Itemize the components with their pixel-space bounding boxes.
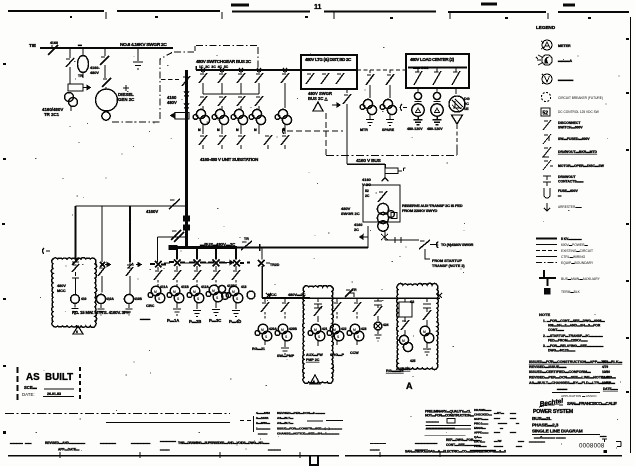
svg-text:M: M bbox=[236, 128, 239, 132]
connector paren bbox=[437, 242, 439, 249]
svg-text:480V▬2C: 480V▬2C bbox=[216, 242, 235, 247]
svg-text:CONTACTS▬▬: CONTACTS▬▬ bbox=[558, 180, 584, 184]
svg-text:4▬▬8/82: 4▬▬8/82 bbox=[256, 411, 270, 415]
left feeder3 vertical bbox=[129, 206, 131, 262]
svg-text:TR: TR bbox=[352, 288, 357, 292]
svg-text:1C 2C 3C 4C 5C: 1C 2C 3C 4C 5C bbox=[199, 65, 229, 69]
drawout arrow mid bbox=[225, 261, 233, 265]
svg-text:FROM STARTUP: FROM STARTUP bbox=[432, 259, 462, 263]
feeder2 ground bbox=[98, 304, 105, 315]
svg-text:M: M bbox=[402, 339, 405, 343]
box2 drop 1 pt circle bbox=[417, 88, 419, 92]
small motor circle x250 bbox=[247, 291, 255, 299]
svg-text:PMP 2C: PMP 2C bbox=[306, 358, 320, 362]
drop B5 x357 bbox=[353, 298, 361, 312]
svg-text:420B: 420B bbox=[289, 327, 298, 331]
wire to startup transformer bbox=[385, 239, 419, 241]
drop B7 x405 (in cloud M2, box) bbox=[404, 298, 406, 302]
svg-text:PROJ▬▬: PROJ▬▬ bbox=[474, 422, 488, 426]
svg-text:TR: TR bbox=[244, 237, 249, 241]
drop B6 x378 (double contact) bbox=[374, 298, 382, 321]
svg-text:480V: 480V bbox=[167, 100, 177, 105]
svg-text:ISSUED▬CERTIFIED▬CONFORM▬: ISSUED▬CERTIFIED▬CONFORM▬ bbox=[529, 370, 591, 374]
svg-text:TR 2C1: TR 2C1 bbox=[44, 112, 60, 117]
cloud L drop symbols bbox=[72, 258, 79, 265]
feeder breaker slash group x241 bbox=[237, 70, 245, 94]
feeder3 slash bbox=[126, 267, 133, 295]
revision cloud left bbox=[51, 258, 96, 328]
svg-text:MCC: MCC bbox=[57, 289, 66, 293]
border right zone dots bbox=[626, 39, 629, 392]
box2 drop 3 generator circle bbox=[455, 88, 457, 94]
dashed control interconnections bbox=[283, 113, 458, 156]
svg-text:M: M bbox=[193, 290, 196, 294]
second slash x222 bbox=[218, 96, 226, 110]
svg-text:RG▬21: RG▬21 bbox=[252, 347, 265, 351]
svg-text:11/81: 11/81 bbox=[602, 376, 610, 380]
svg-text:AS▬BLT▬: AS▬BLT▬ bbox=[277, 416, 294, 420]
svg-text:▬▬▬▬▬▬▬: ▬▬▬▬▬▬▬ bbox=[415, 441, 438, 445]
motor cluster A1 x158 bbox=[151, 286, 161, 296]
svg-text:▭▭ 2C1: ▭▭ 2C1 bbox=[413, 66, 428, 70]
legend bus symbol bbox=[539, 270, 556, 286]
svg-text:EQUIP▬BOUNDARY: EQUIP▬BOUNDARY bbox=[561, 261, 594, 265]
svg-text:CHANGE▬NOTICE▬SEE▬SH▬1▬▬▬▬: CHANGE▬NOTICE▬SEE▬SH▬1▬▬▬▬ bbox=[277, 432, 340, 436]
junction cross bbox=[123, 85, 129, 91]
svg-text:NOT▬FOR▬CONSTRUCTION▬: NOT▬FOR▬CONSTRUCTION▬ bbox=[425, 414, 474, 418]
box2 drop 1 transformer circle with delta bbox=[412, 104, 424, 116]
svg-text:BUS▬2L: BUS▬2L bbox=[532, 416, 552, 422]
svg-text:BUS▬MAIN▬AUXILIARY: BUS▬MAIN▬AUXILIARY bbox=[561, 277, 601, 281]
svg-text:S: S bbox=[285, 335, 288, 339]
legend sym disconnect slash bbox=[543, 120, 551, 130]
legend filled square bbox=[544, 288, 551, 295]
drawout contact x102 bbox=[100, 262, 110, 267]
svg-text:480V LTG (&) DIST BD 2C: 480V LTG (&) DIST BD 2C bbox=[305, 57, 352, 62]
svg-text:52: 52 bbox=[365, 189, 369, 193]
svg-text:▬▬: ▬▬ bbox=[494, 416, 500, 420]
svg-text:TERM▬BLK: TERM▬BLK bbox=[561, 290, 581, 294]
legend sym 52 breaker bbox=[541, 108, 550, 116]
breaker drop x216 bbox=[208, 248, 225, 267]
svg-text:S: S bbox=[357, 335, 360, 339]
svg-text:▬▬▬▬▬▬: ▬▬▬▬▬▬ bbox=[131, 441, 151, 445]
svg-text:▬▬▬▬: ▬▬▬▬ bbox=[415, 448, 429, 452]
svg-text:P▬2B: P▬2B bbox=[189, 319, 201, 324]
box2 breaker slashes bbox=[414, 68, 460, 86]
transformer enclosure box bbox=[363, 185, 400, 222]
svg-text:412A: 412A bbox=[201, 285, 210, 289]
bus B main horizontal bbox=[262, 297, 310, 299]
svg-text:412B: 412B bbox=[227, 284, 236, 288]
box1 breaker slash 1 bbox=[306, 73, 314, 84]
junction marks on 480V bus bbox=[201, 68, 287, 72]
svg-text:▬▬: ▬▬ bbox=[510, 430, 516, 434]
second slash x203 bbox=[199, 96, 207, 110]
svg-text:S: S bbox=[318, 335, 321, 339]
svg-text:S: S bbox=[265, 335, 268, 339]
svg-text:1▬▬▬▬: 1▬▬▬▬ bbox=[256, 427, 271, 431]
drop B1 motor cluster bbox=[258, 324, 268, 334]
slash tap above bus B bbox=[345, 289, 354, 297]
svg-text:600V▬POWER▬: 600V▬POWER▬ bbox=[561, 243, 588, 247]
svg-text:5 KV▬▬▬▬: 5 KV▬▬▬▬ bbox=[561, 237, 582, 241]
legend sym fused switch slash bbox=[543, 134, 551, 144]
svg-text:NO.6 4.16KV SWGR 2C: NO.6 4.16KV SWGR 2C bbox=[120, 42, 167, 48]
svg-text:▬▬▬▬: ▬▬▬▬ bbox=[558, 78, 573, 82]
potential transformer fuse box bbox=[385, 168, 406, 174]
slash on y237 feeder bbox=[171, 230, 184, 242]
svg-text:CIRCUIT BREAKER (FUTURE): CIRCUIT BREAKER (FUTURE) bbox=[558, 96, 603, 100]
svg-text:M: M bbox=[281, 328, 284, 332]
svg-text:NOTE: NOTE bbox=[539, 312, 550, 317]
motor cluster M2 bbox=[215, 109, 224, 118]
legend sym future device (dashed circle) bbox=[541, 92, 550, 101]
svg-text:DC CONTROL 125 VDC SW: DC CONTROL 125 VDC SW bbox=[558, 110, 599, 114]
border top smudges bbox=[231, 4, 575, 5]
box1 breaker slash 2 bbox=[321, 73, 329, 84]
drawout symbol H bbox=[395, 237, 401, 243]
svg-text:POWER SYSTEM: POWER SYSTEM bbox=[533, 409, 573, 415]
generator neutral circle bbox=[102, 112, 110, 120]
disconnect switch S1 bbox=[66, 58, 74, 84]
svg-text:▬▬▬: ▬▬▬ bbox=[160, 448, 170, 452]
cloud L motor circle bbox=[71, 295, 80, 304]
feeder3 motor circle x130 bbox=[124, 294, 133, 303]
stamp underlines bbox=[43, 389, 74, 397]
svg-text:SINGLE LINE DIAGRAM: SINGLE LINE DIAGRAM bbox=[532, 429, 583, 435]
motor cluster M4 bbox=[252, 109, 261, 118]
dashed link connector left bbox=[283, 128, 285, 134]
svg-text:METER: METER bbox=[558, 44, 571, 48]
bus inside box2 bbox=[408, 67, 467, 69]
border zone tick marks top bbox=[106, 12, 548, 19]
svg-text:▬: ▬ bbox=[516, 421, 519, 425]
dash-dot link y155 bbox=[326, 155, 457, 157]
svg-text:▬▬▬: ▬▬▬ bbox=[557, 387, 568, 391]
wire left lead from transformer to bus A bbox=[367, 226, 369, 248]
feeder slash x177 bbox=[173, 266, 181, 280]
MCC drop B ground bbox=[386, 115, 394, 126]
breaker drop x177 bbox=[169, 248, 185, 267]
short feeder y237 bbox=[158, 237, 187, 262]
inner breaker slash bbox=[378, 191, 387, 202]
svg-text:3▬10/81: 3▬10/81 bbox=[256, 416, 269, 420]
svg-text:480V: 480V bbox=[57, 284, 66, 288]
svg-text:FED▬FROM▬220KV▬▬: FED▬FROM▬220KV▬▬ bbox=[548, 339, 588, 343]
svg-text:SCE▬: SCE▬ bbox=[24, 385, 38, 390]
border bottom sheet tick bbox=[310, 456, 318, 465]
svg-text:480V SWITCHGEAR BUS 2C: 480V SWITCHGEAR BUS 2C bbox=[196, 59, 252, 64]
dashed line from gen down bbox=[456, 125, 458, 155]
left cloud feeder vertical bbox=[75, 206, 77, 260]
legend sym ammeter bbox=[542, 40, 552, 50]
wire: transformer tail bbox=[70, 106, 72, 111]
revision cloud M1 bbox=[303, 285, 334, 383]
svg-text:4/79: 4/79 bbox=[602, 365, 608, 369]
svg-text:▬▬▬A: ▬▬▬A bbox=[558, 59, 572, 63]
svg-text:480V LOAD CENTER (2): 480V LOAD CENTER (2) bbox=[410, 57, 455, 62]
dash-dot enclosure (emergency section) bbox=[112, 46, 258, 123]
breaker CB-T1 (slash on tie bus) bbox=[48, 45, 58, 55]
breaker CB-G1 slash bbox=[100, 48, 109, 65]
svg-text:1. ▬FOR▬CONT▬SEE▬DWG▬0008▬: 1. ▬FOR▬CONT▬SEE▬DWG▬0008▬ bbox=[543, 319, 605, 323]
svg-text:▬▬▬: ▬▬▬ bbox=[258, 432, 268, 436]
svg-text:AUX▬FW: AUX▬FW bbox=[306, 353, 323, 357]
connector bracket left of box2 bbox=[400, 104, 407, 111]
svg-text:DATE:: DATE: bbox=[22, 392, 35, 397]
svg-text:▬▬▬▬▬▬▬▬▬▬: ▬▬▬▬▬▬▬▬▬▬ bbox=[426, 426, 455, 430]
drawout arrow left bbox=[360, 235, 368, 239]
svg-text:▬▬▬: ▬▬▬ bbox=[556, 436, 566, 440]
current transformer box on feeder bbox=[171, 113, 189, 120]
legend sym voltmeter bbox=[542, 74, 552, 84]
border bottom small ticks bbox=[60, 452, 440, 458]
svg-text:2C: 2C bbox=[464, 102, 469, 106]
svg-text:FUSE▬600V: FUSE▬600V bbox=[558, 189, 579, 193]
svg-text:4160V: 4160V bbox=[146, 209, 158, 214]
svg-text:REVISED▬PER▬DCN▬2-▬▬▬: REVISED▬PER▬DCN▬2-▬▬▬ bbox=[277, 411, 326, 415]
feeder breaker slash group x259 bbox=[255, 70, 263, 94]
svg-text:▬▬▬▬▬: ▬▬▬▬▬ bbox=[100, 441, 117, 445]
svg-text:M: M bbox=[314, 328, 317, 332]
second slash x241 bbox=[237, 96, 245, 110]
svg-text:ISSUE▬FOR▬CONSTR▬SEE▬(▬)▬▬▬▬: ISSUE▬FOR▬CONSTR▬SEE▬(▬)▬▬▬▬ bbox=[277, 427, 343, 431]
revision strip upper line bbox=[106, 422, 230, 424]
small square below number bbox=[604, 450, 608, 453]
svg-text:▬▬▬: ▬▬▬ bbox=[140, 317, 151, 321]
svg-text:PHASE▬2,3: PHASE▬2,3 bbox=[532, 423, 559, 429]
transformer T-B ellipse bbox=[82, 48, 84, 56]
svg-text:SWGR 2C: SWGR 2C bbox=[341, 211, 360, 216]
svg-text:AS▬BLT▬: AS▬BLT▬ bbox=[277, 421, 294, 425]
transformer T-A (two circles) bbox=[65, 93, 74, 102]
svg-text:SW▬PMP: SW▬PMP bbox=[277, 354, 295, 358]
svg-text:REF▬DWG▬FOR▬▬: REF▬DWG▬FOR▬▬ bbox=[446, 438, 480, 442]
current transformer box with arrow bbox=[68, 84, 90, 91]
feeder2 motor circle x102 bbox=[96, 294, 105, 303]
switchgear enclosure box 2 bbox=[406, 54, 469, 88]
svg-text:DRAWN▬▬: DRAWN▬▬ bbox=[474, 408, 491, 412]
svg-text:420A: 420A bbox=[269, 327, 278, 331]
dashed 480V tie bus between boxes bbox=[357, 69, 406, 71]
svg-text:10/82: 10/82 bbox=[602, 381, 610, 385]
svg-text:CIRC: CIRC bbox=[146, 304, 155, 308]
breaker drop x262 (tie to MCC bus) bbox=[258, 248, 270, 267]
revision triangle below cloud M1 bbox=[310, 375, 320, 384]
feeder slash x158 bbox=[154, 267, 162, 280]
svg-text:DATE▬▬: DATE▬▬ bbox=[603, 387, 619, 391]
svg-text:TR: TR bbox=[78, 74, 83, 78]
feeder slash x216 bbox=[212, 266, 220, 280]
svg-text:GEN 2C: GEN 2C bbox=[118, 97, 135, 102]
motor cluster M5 bbox=[278, 109, 287, 118]
svg-text:M: M bbox=[254, 128, 257, 132]
breaker slash on bus A right bbox=[241, 241, 252, 250]
svg-text:▬▬▬: ▬▬▬ bbox=[498, 421, 507, 425]
svg-text:DG: DG bbox=[464, 97, 470, 101]
svg-text:M: M bbox=[154, 290, 157, 294]
warning triangle below box1 bbox=[313, 102, 323, 111]
motor cluster M3 bbox=[234, 109, 243, 118]
legend sym fuse bbox=[544, 188, 550, 198]
diesel generator G 2C circle bbox=[96, 89, 118, 111]
feeder breaker slash group x222 bbox=[218, 70, 226, 94]
svg-text:MCC: MCC bbox=[268, 293, 277, 297]
svg-text:▬▬: ▬▬ bbox=[25, 441, 32, 445]
svg-text:DRAWOUT▬BKR▬MTD: DRAWOUT▬BKR▬MTD bbox=[558, 150, 598, 154]
border right line bbox=[630, 17, 632, 453]
svg-text:2▬9/80▬: 2▬9/80▬ bbox=[256, 421, 271, 425]
wire: drop to load break switch bbox=[69, 48, 71, 58]
svg-text:S: S bbox=[337, 335, 340, 339]
box2 drop 1 contact bars bbox=[415, 102, 422, 105]
drop B7 motor cluster bbox=[399, 335, 408, 344]
svg-text:S: S bbox=[197, 297, 200, 301]
svg-text:▬▬: ▬▬ bbox=[510, 411, 516, 415]
svg-text:▬▬▬▬▬▬▬▬: ▬▬▬▬▬▬▬▬ bbox=[470, 448, 496, 452]
svg-text:CCW: CCW bbox=[350, 351, 359, 355]
stamp right dashed border bbox=[79, 367, 81, 400]
dot x248 bbox=[247, 262, 250, 264]
svg-text:SW▬FUSED▬600V: SW▬FUSED▬600V bbox=[558, 137, 590, 141]
svg-text:▬RT▬: ▬RT▬ bbox=[494, 411, 504, 415]
legend sym drawout contact stack bbox=[543, 176, 551, 186]
svg-text:LEGEND: LEGEND bbox=[536, 25, 556, 30]
box2 drop 2 pt circle bbox=[436, 88, 438, 92]
svg-text:RG. 15 MW. MTR'S. 4160V. 3PH: RG. 15 MW. MTR'S. 4160V. 3PH bbox=[72, 310, 129, 315]
svg-text:▬: ▬ bbox=[78, 43, 82, 47]
svg-text:CTRL▬WIRING: CTRL▬WIRING bbox=[561, 255, 586, 259]
svg-text:▬▬▬▬: ▬▬▬▬ bbox=[268, 448, 282, 452]
feeder3 ground bbox=[126, 304, 133, 315]
box2 drop 2 ground blob bbox=[433, 117, 442, 125]
breaker on main vertical feeder bbox=[182, 76, 190, 86]
svg-text:S: S bbox=[177, 297, 180, 301]
feeder from box1 down to 4160V bus bbox=[343, 89, 351, 164]
svg-text:M: M bbox=[353, 328, 356, 332]
svg-text:410A: 410A bbox=[106, 297, 115, 301]
wire down from startup breaker bbox=[425, 249, 430, 259]
lower feeder slashes bbox=[199, 135, 207, 149]
revision triangle below cloud L bbox=[73, 326, 83, 334]
svg-text:6: 6 bbox=[313, 380, 315, 384]
bus B end tick bbox=[437, 293, 442, 298]
svg-text:▬: ▬ bbox=[558, 194, 562, 198]
dashed link vertical x326 bbox=[325, 113, 327, 155]
drop B4 x337 bbox=[333, 298, 341, 312]
svg-text:SWITCH▬600V: SWITCH▬600V bbox=[558, 126, 583, 130]
svg-text:4160 V BUS: 4160 V BUS bbox=[356, 158, 382, 164]
drop B2 motor cluster bbox=[278, 324, 288, 334]
svg-text:▬JW: ▬JW bbox=[494, 439, 502, 443]
svg-text:M: M bbox=[212, 289, 215, 293]
feeder line from left rectangle bbox=[76, 205, 187, 207]
svg-text:MOTOR▬OPER▬DISC▬SW: MOTOR▬OPER▬DISC▬SW bbox=[558, 164, 605, 168]
svg-text:C2: C2 bbox=[410, 300, 414, 304]
transformer lower circles bbox=[378, 221, 388, 231]
dashed tap to enclosure bbox=[161, 79, 179, 81]
drawout contact x157 bbox=[150, 261, 166, 268]
svg-text:BUS 2C △: BUS 2C △ bbox=[308, 96, 329, 101]
breaker drop x236 bbox=[229, 248, 244, 267]
transformer aux contact square bbox=[391, 213, 397, 219]
svg-text:410: 410 bbox=[81, 297, 87, 301]
svg-text:ENGR▬: ENGR▬ bbox=[474, 426, 486, 430]
svg-text:FROM 220KV SWYD: FROM 220KV SWYD bbox=[402, 208, 438, 213]
drop B8 x427 (in cloud M2) bbox=[423, 298, 431, 326]
svg-text:▬▬▬▬: ▬▬▬▬ bbox=[10, 441, 24, 445]
corner solid at x457 bbox=[456, 146, 458, 155]
svg-text:MTR: MTR bbox=[360, 128, 368, 132]
svg-text:10/80: 10/80 bbox=[602, 370, 610, 374]
breaker drop x197 bbox=[189, 248, 206, 267]
svg-text:0008008: 0008008 bbox=[579, 443, 605, 450]
breaker CB-G2 slash bbox=[102, 65, 111, 90]
svg-text:TIE: TIE bbox=[29, 43, 36, 48]
svg-text:A: A bbox=[406, 381, 413, 391]
wire right lead from transformer bbox=[384, 231, 386, 240]
svg-text:▬▬: ▬▬ bbox=[510, 416, 516, 420]
svg-text:DRAWOUT: DRAWOUT bbox=[558, 175, 576, 179]
box2 drop 2 contact bars bbox=[434, 102, 441, 105]
drop B8 motor cluster bbox=[420, 326, 430, 336]
breaker slash on left feeder bbox=[169, 199, 180, 209]
svg-text:480-120V: 480-120V bbox=[427, 127, 443, 131]
approvals underline bbox=[552, 392, 600, 394]
svg-text:SPARE: SPARE bbox=[382, 128, 395, 132]
svg-text:ARRESTER▬▬: ARRESTER▬▬ bbox=[558, 205, 583, 209]
junction blobs on vertical feeder bbox=[184, 216, 190, 230]
motor cluster A5 x236 bbox=[229, 286, 239, 296]
svg-text:REVISED▬AND▬▬▬▬▬: REVISED▬AND▬▬▬▬▬ bbox=[45, 441, 86, 445]
spare feeder x285 from bus bbox=[281, 70, 289, 108]
station service transformer circles bbox=[377, 203, 388, 214]
svg-text:P▬1A: P▬1A bbox=[167, 318, 179, 323]
junction mark above bus B left bbox=[266, 293, 271, 298]
svg-text:▬▬▬: ▬▬▬ bbox=[370, 448, 380, 452]
feeder slash x236 bbox=[232, 266, 240, 280]
svg-text:▬: ▬ bbox=[500, 426, 503, 430]
bus inside box1 bbox=[290, 69, 357, 71]
junction x marks on feeder bbox=[184, 92, 189, 109]
legend line samples bbox=[536, 239, 557, 263]
dash-dot tie to 480V swgr bbox=[174, 46, 258, 71]
motor cluster A2 x177 bbox=[170, 286, 180, 296]
svg-text:CONT▬▬: CONT▬▬ bbox=[548, 328, 565, 332]
wire: 4.16kV tie bus bbox=[40, 47, 173, 49]
legend sym lightning arrester bbox=[544, 203, 550, 211]
svg-text:▬▬▬▬▬: ▬▬▬▬▬ bbox=[529, 440, 546, 444]
svg-text:411A: 411A bbox=[160, 285, 168, 289]
drop B4 motor cluster bbox=[330, 324, 340, 334]
svg-text:P▬4D: P▬4D bbox=[229, 319, 241, 324]
svg-text:▬▬▬▬: ▬▬▬▬ bbox=[426, 420, 440, 424]
svg-text:TO (N)4160V SWGR: TO (N)4160V SWGR bbox=[441, 243, 474, 247]
svg-text:11: 11 bbox=[314, 4, 322, 11]
drawout contact x130 bbox=[127, 262, 141, 268]
svg-text:52: 52 bbox=[543, 111, 549, 117]
svg-text:M: M bbox=[261, 328, 264, 332]
feeder breaker slash group x203 bbox=[199, 70, 207, 94]
left feeder2 vertical bbox=[101, 206, 103, 262]
motor cluster M1 bbox=[196, 109, 205, 118]
svg-text:410B: 410B bbox=[134, 297, 143, 301]
svg-text:4/78: 4/78 bbox=[602, 360, 608, 364]
MCC drop A slash bbox=[366, 70, 374, 98]
triangle below gen bbox=[452, 115, 463, 124]
svg-text:422: 422 bbox=[341, 327, 347, 331]
